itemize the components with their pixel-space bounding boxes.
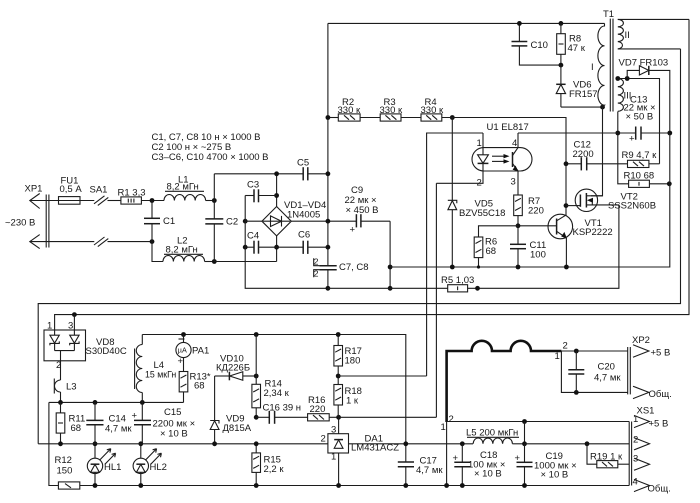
transistor VT2 SSS2N60B <box>566 189 656 211</box>
node: C12 left on gate rail <box>564 161 569 166</box>
U1 phototransistor <box>512 152 514 167</box>
wire: +5 rail to XS1 pin2 <box>525 443 630 445</box>
svg-text:4,7 мк: 4,7 мк <box>105 424 132 435</box>
svg-text:150: 150 <box>57 466 73 477</box>
wire: winding II top lead <box>618 18 689 20</box>
wire: R2-R3 <box>360 117 380 119</box>
svg-text:+: + <box>350 225 356 236</box>
svg-text:330 к: 330 к <box>380 105 403 116</box>
svg-text:+: + <box>629 134 635 145</box>
core <box>609 19 611 112</box>
wire: DC plus rail (vertical x=328) <box>327 23 329 288</box>
svg-text:× 450 В: × 450 В <box>346 205 379 216</box>
svg-text:2: 2 <box>321 434 326 445</box>
capacitor C3 <box>245 180 276 203</box>
svg-text:220: 220 <box>528 206 544 217</box>
node: plus rail at bottom return <box>326 286 331 291</box>
svg-text:HL2: HL2 <box>150 462 167 473</box>
capacitor C16 39н <box>256 403 307 424</box>
node: R17/R18 midpoint <box>336 374 341 379</box>
node: HL1 bottom <box>93 483 98 488</box>
wire: bridge bottom lead <box>276 236 278 262</box>
svg-text:C5: C5 <box>297 158 309 169</box>
node: minus bus bottom <box>388 286 393 291</box>
node: winding III top corner <box>615 76 620 81</box>
svg-text:× 10 В: × 10 В <box>474 469 502 480</box>
wire: C9 right down link <box>389 221 391 288</box>
svg-text:КД226Б: КД226Б <box>216 363 250 374</box>
wire: gate rail <box>565 164 567 215</box>
svg-text:VD7 FR103: VD7 FR103 <box>619 58 669 69</box>
resistor R4 330к <box>421 97 444 121</box>
capacitor C17 4,7мк <box>398 444 444 486</box>
svg-text:XP2: XP2 <box>632 335 650 346</box>
node: R7/C11/R6/base <box>516 223 521 228</box>
svg-text:PA1: PA1 <box>192 346 209 357</box>
svg-text:1: 1 <box>441 422 446 433</box>
inductor L5 200мкГн <box>466 428 525 444</box>
meter PA1 <box>176 335 209 372</box>
svg-text:1: 1 <box>47 321 52 332</box>
node: C5 right on plus rail <box>326 171 331 176</box>
wire: R1 to node A <box>141 200 164 202</box>
node: L4/C15 <box>140 400 145 405</box>
capacitor C6 <box>277 230 328 254</box>
resistor R5 1,03 <box>441 275 474 292</box>
node: cable wire1 on 0V rail <box>444 483 449 488</box>
node: C17 top / feed drop <box>403 441 408 446</box>
capacitor C9 22мк x 450В <box>345 185 391 236</box>
node: VD8 pin3 branch <box>72 312 77 317</box>
node: R2 left <box>326 115 331 120</box>
wire: VD6 to winding I bottom <box>561 106 603 108</box>
node: R15 top <box>254 441 259 446</box>
svg-text:68: 68 <box>486 246 497 257</box>
svg-text:2200: 2200 <box>573 149 594 160</box>
node: R17 top <box>336 332 341 337</box>
svg-text:R9 4,7 к: R9 4,7 к <box>622 150 658 161</box>
node: L2/C2 junction <box>212 259 217 264</box>
connector XP1 <box>5 184 49 249</box>
svg-text:~230 В: ~230 В <box>5 218 35 229</box>
wire: winding III top lead <box>618 79 660 164</box>
inductor L3 <box>54 361 76 403</box>
svg-text:C6: C6 <box>298 230 310 241</box>
wire: mains bottom lead <box>30 241 95 243</box>
resistor R19 1к <box>587 444 629 468</box>
wire: top HV rail y=23.4 <box>328 22 605 24</box>
node: R4 right / VD5 top <box>450 115 455 120</box>
wire: node B down to L2 rail <box>152 242 163 262</box>
svg-text:Общ.: Общ. <box>648 484 671 495</box>
wire: VD7/C13/R10 vertical to minus rail <box>390 133 670 267</box>
capacitor C11 100 <box>510 226 546 267</box>
svg-text:+: + <box>178 356 184 367</box>
capacitor C10 <box>512 23 561 65</box>
node: HL2 bottom <box>138 483 143 488</box>
node: after R5 <box>475 286 480 291</box>
svg-text:+: + <box>515 453 521 464</box>
node: C19 bottom <box>522 483 527 488</box>
svg-text:× 50 В: × 50 В <box>626 112 654 123</box>
svg-text:2,2 к: 2,2 к <box>264 464 285 475</box>
node: C13 right / VD7 cathode <box>667 131 672 136</box>
svg-text:2: 2 <box>449 414 454 425</box>
wire: drain vertical <box>591 107 603 196</box>
svg-text:R19 1 к: R19 1 к <box>590 452 623 463</box>
node: bridge right on plus rail <box>326 219 331 224</box>
node: bridge left on minus column <box>243 219 248 224</box>
node: C4 left on minus column <box>243 245 248 250</box>
svg-text:XS1: XS1 <box>637 406 655 417</box>
svg-text:330 к: 330 к <box>421 105 444 116</box>
capacitor C15 2200мк x 10В <box>132 402 196 443</box>
svg-text:1: 1 <box>477 138 482 149</box>
diode VD6 FR157 <box>556 65 597 107</box>
svg-text:C10: C10 <box>531 40 548 51</box>
resistor R3 330к <box>380 97 403 121</box>
resistor R6 68 <box>474 226 518 267</box>
svg-text:C2: C2 <box>226 217 238 228</box>
wire: R5 to VT2 source corner <box>468 205 619 288</box>
wire: startup chain feed <box>328 117 338 119</box>
capacitor C18 100мк x 10В <box>453 444 506 486</box>
resistor R16 220 <box>308 395 339 421</box>
svg-text:S30D40C: S30D40C <box>86 346 127 357</box>
svg-text:2: 2 <box>633 435 638 446</box>
inductor L4 15мкГн <box>135 335 177 403</box>
node: C18 bottom <box>460 483 465 488</box>
capacitor C1 <box>144 201 175 242</box>
inductor L2 8,2 мГн <box>163 236 214 262</box>
node: VD9 bottom <box>212 441 217 446</box>
capacitors C7, C8 <box>314 257 369 279</box>
svg-text:I: I <box>591 62 594 73</box>
winding II <box>618 19 624 49</box>
wire: VD8 pin3 lead <box>73 315 75 330</box>
svg-text:1 к: 1 к <box>346 396 359 407</box>
wire: +5 regulated rail y=443.8 <box>38 443 473 445</box>
node: R14 feed from +5 wire <box>254 332 259 337</box>
svg-text:µА: µА <box>178 346 187 355</box>
transformer T1 <box>591 9 631 112</box>
wire: 0V bottom rail <box>80 485 629 487</box>
svg-text:+: + <box>453 453 459 464</box>
diode VD10 КД226Б <box>215 354 257 381</box>
svg-text:× 10 В: × 10 В <box>160 429 188 440</box>
node: winding III bottom / C13 / U1 pin4 wire <box>615 131 620 136</box>
node: winding I bottom / drain <box>600 105 605 110</box>
svg-text:4: 4 <box>633 477 638 488</box>
wire: drop to L5 right <box>524 422 526 444</box>
wire: bridge top lead <box>276 174 278 207</box>
wire: U1 pin1 riser <box>427 133 483 376</box>
svg-text:2: 2 <box>563 341 568 352</box>
wire: secondary hot (winding II top) long run <box>55 19 689 330</box>
svg-text:+: + <box>132 411 138 422</box>
svg-text:180: 180 <box>345 356 361 367</box>
wire: R3-R4 <box>401 117 421 119</box>
node: VD5 bottom on minus rail <box>450 265 455 270</box>
resistor R1 3,3 <box>118 188 146 205</box>
svg-text:L3: L3 <box>66 382 77 393</box>
node: R10 right <box>667 181 672 186</box>
node: R11 bottom <box>58 441 63 446</box>
wire: midpoint to U1 pin1 riser <box>338 375 426 377</box>
svg-text:C15: C15 <box>164 407 181 418</box>
svg-text:47 к: 47 к <box>568 43 586 54</box>
node: C11 bottom on minus rail <box>516 265 521 270</box>
node: C17 bottom <box>403 483 408 488</box>
svg-text:U1 EL817: U1 EL817 <box>487 122 529 133</box>
capacitor C2 <box>205 174 238 262</box>
svg-text:SSS2N60B: SSS2N60B <box>608 201 656 212</box>
svg-text:Общ.: Общ. <box>649 389 672 400</box>
svg-text:Д815А: Д815А <box>223 423 252 434</box>
svg-text:C7, C8: C7, C8 <box>339 262 369 273</box>
svg-text:XP1: XP1 <box>25 184 43 195</box>
node: C6 right on plus rail <box>326 245 331 250</box>
rectifier VD8 S30D40C <box>44 321 127 372</box>
fuse FU1 <box>59 176 95 205</box>
svg-text:II: II <box>625 30 630 41</box>
resistor R10 68 <box>624 171 670 188</box>
node: R6 bottom <box>477 265 480 268</box>
capacitor C5 <box>297 158 328 181</box>
node A (R1/L1/C1) <box>150 198 155 203</box>
LED HL2 <box>133 444 167 486</box>
cable to XP2 (wires 1,2) <box>441 341 568 486</box>
node: C4/C6 on bridge bottom <box>274 245 279 250</box>
svg-text:KSP2222: KSP2222 <box>573 227 613 238</box>
wire: winding III bottom lead down <box>618 112 629 184</box>
wire: XP2 0V lead <box>561 351 627 392</box>
resistor R9 4,7к <box>622 150 660 168</box>
svg-text:× 10 В: × 10 В <box>541 470 569 481</box>
capacitor C14 4,7мк <box>86 402 132 443</box>
node: C20 bottom <box>574 390 579 395</box>
wire: +5 to XS1 pin1 rail <box>447 421 630 423</box>
resistor R11 68 <box>56 402 85 443</box>
svg-text:BZV55C18: BZV55C18 <box>459 208 505 219</box>
node: HL1 top <box>93 441 98 446</box>
node: R14 top / VD10 right <box>254 374 259 379</box>
svg-text:15 мкГн: 15 мкГн <box>145 370 176 380</box>
winding I <box>598 23 605 107</box>
svg-text:R5 1,03: R5 1,03 <box>441 275 474 286</box>
wire: node to U1 pin2 riser <box>339 416 437 418</box>
svg-text:LM431ACZ: LM431ACZ <box>351 443 399 454</box>
svg-text:+5 В: +5 В <box>649 419 669 430</box>
svg-text:1N4005: 1N4005 <box>287 210 320 221</box>
node: R15 bottom <box>254 483 259 488</box>
svg-text:2: 2 <box>314 268 319 278</box>
node: pin1 rail to L5 drop <box>522 419 527 424</box>
svg-text:4: 4 <box>512 138 517 149</box>
svg-text:+5 В: +5 В <box>651 348 671 359</box>
svg-text:3: 3 <box>68 321 73 332</box>
svg-text:R1 3,3: R1 3,3 <box>118 188 146 199</box>
diode VD7 FR103 <box>619 58 670 134</box>
node: VD7 branch <box>625 76 630 81</box>
node: R14 bottom / C16 left <box>254 415 259 420</box>
wire: source return rail y=288 <box>328 287 448 289</box>
wire: secondary return (winding II bottom) long run <box>38 49 680 444</box>
svg-text:3: 3 <box>331 425 336 436</box>
wire: U1 pin2 riser <box>435 183 437 417</box>
svg-text:T1: T1 <box>603 9 614 20</box>
svg-text:SA1: SA1 <box>90 185 108 196</box>
regulator DA1 LM431ACZ <box>321 417 400 485</box>
wire: AC top feed to bridge <box>214 173 303 175</box>
node: R8 bottom / VD6 top <box>559 63 564 68</box>
resistor R2 330к <box>338 97 361 121</box>
svg-text:68: 68 <box>194 381 205 392</box>
resistor R8 47к <box>557 23 586 65</box>
node: PA1 top <box>181 332 186 337</box>
switch SA1 (2-pole) <box>90 185 109 247</box>
optocoupler U1 EL817 <box>436 122 532 195</box>
svg-text:330 к: 330 к <box>338 105 361 116</box>
capacitor C12 2200 <box>566 140 628 171</box>
LED HL1 <box>87 444 121 486</box>
svg-text:68: 68 <box>71 423 82 434</box>
node: C20 top <box>574 349 579 354</box>
resistor R17 180 <box>334 335 362 385</box>
capacitor C20 4,7мк <box>568 351 621 392</box>
zener VD5 BZV55C18 <box>448 118 506 268</box>
zener VD9 Д815А <box>210 376 252 444</box>
svg-text:R10 68: R10 68 <box>624 171 655 182</box>
wire: R4 to gate rail corner <box>442 118 566 164</box>
node: R16/R18/DA1/U1pin2 <box>336 415 341 420</box>
svg-text:4,7 мк: 4,7 мк <box>416 465 443 476</box>
wire: bridge right lead to DC plus rail <box>291 220 356 222</box>
node: HL2 top <box>138 441 143 446</box>
svg-text:R12: R12 <box>55 455 72 466</box>
svg-text:HL1: HL1 <box>104 462 121 473</box>
svg-text:2,34 к: 2,34 к <box>264 388 290 399</box>
diode bridge VD1-VD4 1N4005 <box>262 200 326 236</box>
svg-text:C1: C1 <box>163 216 175 227</box>
node: C18 top / L5 left <box>460 441 465 446</box>
wire: XP2 +5 lead <box>561 350 627 352</box>
svg-text:C16 39 н: C16 39 н <box>263 403 302 414</box>
note: capacitor values <box>152 132 269 163</box>
wire: SA1 to R1 <box>108 200 121 202</box>
wire: U1 pin4 to winding III <box>518 132 618 134</box>
capacitor C19 1000мк x 10В <box>515 444 577 486</box>
svg-text:2: 2 <box>314 257 319 267</box>
wire: mains top lead <box>30 200 59 202</box>
node: minus bus top <box>388 265 393 270</box>
node: VT2 gate branch <box>564 203 569 208</box>
resistor R18 1к <box>334 385 362 418</box>
svg-text:4,7 мк: 4,7 мк <box>594 373 621 384</box>
wire: +5 feed wire y=334.5 <box>142 335 406 444</box>
svg-text:FR157: FR157 <box>569 89 598 100</box>
node: L5 right / C19 top <box>522 441 527 446</box>
node: L3/R11 <box>58 400 63 405</box>
svg-text:C20: C20 <box>598 362 615 373</box>
winding III <box>618 79 624 112</box>
svg-text:0,5 А: 0,5 А <box>60 184 83 195</box>
node: DA1 pin1 on 0V rail <box>336 483 341 488</box>
inductor L1 8,2 мГн <box>164 175 214 201</box>
capacitor C13 22мк x 50В <box>618 95 670 145</box>
svg-text:3: 3 <box>511 177 516 188</box>
node: C14 top <box>93 400 98 405</box>
resistor R13* 68 <box>179 372 211 403</box>
resistor R12 150 <box>55 455 80 489</box>
resistor R7 220 <box>514 195 544 226</box>
node: C10 top <box>517 21 522 26</box>
svg-text:100: 100 <box>530 250 546 261</box>
wire: SA1 bottom to node B <box>108 241 153 243</box>
node: R8 top <box>559 21 564 26</box>
svg-text:220: 220 <box>310 404 326 415</box>
resistor R15 2,2к <box>252 444 284 486</box>
node: R19 branch <box>585 441 590 446</box>
wire: bridge left lead <box>245 220 262 222</box>
wire: DC minus column <box>245 196 328 289</box>
svg-text:1: 1 <box>331 452 336 463</box>
svg-text:1: 1 <box>555 351 560 362</box>
node: L1/C2 junction <box>212 198 217 203</box>
connector XS1 <box>629 406 671 495</box>
svg-text:C4: C4 <box>247 231 259 242</box>
connector XP2 <box>628 335 672 400</box>
wire: raw DC rail A <box>49 401 184 403</box>
wire: L2 rail to bridge bottom <box>214 261 276 263</box>
U1 internal LED <box>478 155 489 163</box>
node: C5 left / bridge top <box>274 171 279 176</box>
resistor R14 2,34к <box>252 335 290 418</box>
capacitor C4 <box>245 231 276 254</box>
svg-text:C3: C3 <box>247 180 259 191</box>
svg-text:C3–C6, C10 4700 × 1000 В: C3–C6, C10 4700 × 1000 В <box>152 152 269 163</box>
node B (C1 bottom) <box>150 239 155 244</box>
wire: winding II bottom lead <box>618 48 681 50</box>
U1 coupling arrows <box>492 155 507 157</box>
node: VT1 emitter on minus rail <box>564 265 569 270</box>
node: C3 right <box>274 193 279 198</box>
transistor VT1 KSP2222 <box>518 214 613 267</box>
wire: rail A to R12 drop <box>49 402 59 485</box>
